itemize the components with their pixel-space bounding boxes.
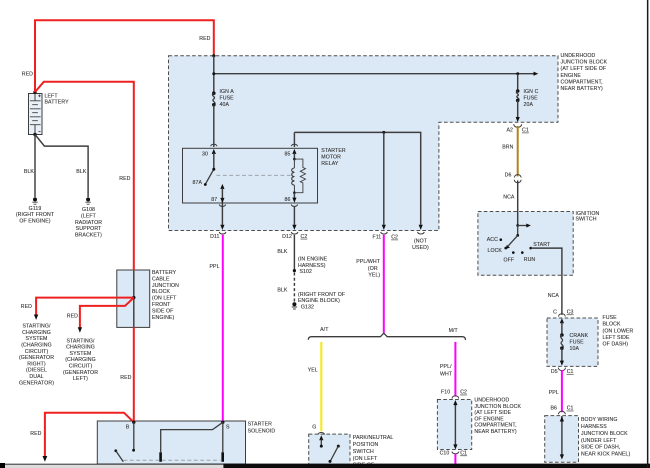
svg-text:SIDE OF DASH,: SIDE OF DASH,: [581, 445, 620, 451]
ignition switch box: [478, 212, 573, 276]
svg-text:LEFT: LEFT: [45, 93, 59, 99]
svg-text:FUSE: FUSE: [570, 340, 585, 346]
svg-text:IGN A: IGN A: [220, 89, 235, 95]
svg-text:(GENERATOR: (GENERATOR: [19, 355, 54, 361]
relay linkage dashed: [217, 174, 292, 176]
svg-text:S: S: [226, 424, 230, 430]
svg-text:RADIATOR: RADIATOR: [75, 220, 102, 226]
relay internal switch 30-87A: [204, 168, 215, 186]
starter solenoid terminals: [132, 421, 135, 424]
svg-text:F11: F11: [372, 235, 381, 241]
wire F11 drop: [381, 132, 388, 234]
svg-text:(ON LEFT: (ON LEFT: [152, 296, 177, 302]
svg-text:C1: C1: [522, 128, 529, 134]
svg-text:B: B: [126, 424, 130, 430]
solenoid S internal wire: [159, 422, 224, 462]
node battery negative: [33, 133, 36, 136]
svg-text:(CHARGING: (CHARGING: [21, 343, 52, 349]
label battery cable junction block: [152, 270, 179, 321]
node rail junction at IGN A: [212, 54, 215, 57]
svg-text:OF ENGINE): OF ENGINE): [19, 219, 50, 225]
svg-text:SIDE OF: SIDE OF: [152, 308, 173, 314]
wire BLK battery to G119: [34, 135, 36, 198]
wire PPL/WHT M/T branch to F10: [452, 342, 459, 399]
underhood junction block (dashed L-shaped box): [169, 56, 559, 231]
label underhood junction block 2: [474, 398, 521, 436]
svg-text:LOCK: LOCK: [487, 248, 502, 254]
svg-text:PPL/: PPL/: [440, 364, 452, 370]
label starter motor relay: [321, 148, 346, 167]
wire A/T M/T branch line: [308, 333, 465, 340]
label ignition switch: [576, 211, 600, 223]
wire YEL A/T branch to park/neutral switch: [318, 342, 325, 435]
svg-text:BLK: BLK: [76, 169, 87, 175]
svg-text:POSITION: POSITION: [353, 442, 379, 448]
svg-text:RED: RED: [21, 304, 32, 310]
wire IGN A fuse to relay 30: [211, 105, 217, 169]
wire RED junction block to starter solenoid B: [133, 327, 135, 422]
svg-text:40A: 40A: [220, 102, 230, 108]
svg-text:ACC: ACC: [487, 237, 498, 243]
svg-text:CHARGING: CHARGING: [22, 330, 51, 336]
svg-text:ENGINE: ENGINE: [561, 73, 582, 79]
solenoid linkage dashed: [124, 459, 221, 461]
svg-text:OF ENGINE: OF ENGINE: [474, 416, 504, 422]
svg-text:D6: D6: [505, 173, 512, 179]
svg-text:JUNCTION: JUNCTION: [152, 283, 179, 289]
wire IGN C drop: [517, 74, 519, 91]
node battery cable junction: [132, 296, 135, 299]
label underhood junction block: [561, 53, 608, 92]
svg-text:USED): USED): [412, 245, 429, 251]
ground G108: [85, 198, 90, 205]
svg-text:C2: C2: [301, 234, 308, 240]
label fuse block: [603, 315, 634, 347]
node battery positive: [33, 91, 36, 94]
svg-text:YEL): YEL): [368, 272, 380, 278]
svg-text:C10: C10: [440, 451, 450, 457]
starter solenoid box: [97, 421, 245, 464]
wire PPL D11 to starter solenoid S: [222, 235, 224, 422]
svg-text:FRONT: FRONT: [152, 302, 171, 308]
svg-text:87A: 87A: [192, 180, 202, 186]
svg-text:M/T: M/T: [449, 328, 459, 334]
svg-text:C: C: [553, 310, 557, 316]
svg-text:RED: RED: [120, 375, 131, 381]
svg-text:BATTERY: BATTERY: [152, 270, 177, 276]
solenoid B internal wire: [114, 422, 135, 462]
wire NCA start to crank fuse: [531, 248, 566, 335]
wire inside body harness junction block: [560, 416, 564, 460]
wire BLK D12 to S102 to G132: [293, 235, 295, 302]
svg-text:ENGINE): ENGINE): [152, 315, 174, 321]
park/neutral switch internals: [319, 435, 340, 463]
svg-text:10A: 10A: [570, 346, 580, 352]
svg-text:87: 87: [211, 197, 217, 203]
svg-text:BRACKET): BRACKET): [75, 232, 102, 238]
label park/neutral position switch: [353, 435, 394, 468]
wire BLK battery to G108: [35, 135, 88, 198]
svg-text:RELAY: RELAY: [321, 161, 339, 167]
label IGN C fuse: [524, 89, 539, 108]
svg-text:(RIGHT FRONT: (RIGHT FRONT: [16, 212, 55, 218]
svg-text:RED: RED: [67, 314, 78, 320]
label NOT USED: [412, 239, 429, 251]
svg-text:UNDERHOOD: UNDERHOOD: [561, 53, 596, 59]
wire NCA D6 to ignition switch: [517, 180, 519, 225]
svg-text:C3: C3: [567, 310, 574, 316]
svg-text:SYSTEM: SYSTEM: [26, 336, 48, 342]
svg-text:(IN ENGINE: (IN ENGINE: [298, 257, 328, 263]
svg-text:RED: RED: [22, 72, 33, 78]
svg-text:BLOCK: BLOCK: [603, 322, 622, 328]
svg-text:PPL: PPL: [549, 390, 559, 396]
svg-text:ENGINE BLOCK): ENGINE BLOCK): [298, 298, 340, 304]
svg-text:(AT LEFT SIDE OF: (AT LEFT SIDE OF: [561, 66, 607, 72]
label G132: [298, 292, 345, 311]
label ignition positions: [487, 237, 551, 264]
svg-text:CABLE: CABLE: [152, 276, 170, 282]
bottom black bar: [223, 464, 650, 468]
svg-text:JUNCTION BLOCK: JUNCTION BLOCK: [581, 431, 628, 437]
svg-text:C1: C1: [567, 406, 574, 412]
svg-text:FUSE: FUSE: [524, 96, 539, 102]
svg-text:DUAL: DUAL: [29, 374, 43, 380]
label starting/charging right: [19, 324, 54, 387]
relay 85 entry wire: [291, 132, 297, 159]
svg-text:SWITCH: SWITCH: [576, 217, 597, 223]
wire battery cable inside junction block: [133, 270, 135, 327]
svg-text:(CHARGING: (CHARGING: [65, 357, 96, 363]
svg-text:START: START: [533, 242, 551, 248]
svg-text:NEAR KICK PANEL): NEAR KICK PANEL): [581, 452, 631, 458]
svg-text:FUSE: FUSE: [603, 315, 618, 321]
svg-text:NEAR BATTERY): NEAR BATTERY): [474, 429, 516, 435]
fuse IGN C 20A: [516, 89, 520, 102]
connector D6: [514, 175, 521, 183]
underhood junction block 2 box: [437, 400, 471, 450]
svg-text:C2: C2: [460, 390, 467, 396]
svg-text:(RIGHT FRONT OF: (RIGHT FRONT OF: [298, 292, 345, 298]
svg-text:OF DASH): OF DASH): [603, 342, 629, 348]
ground G119: [32, 198, 37, 205]
svg-text:BODY WIRING: BODY WIRING: [581, 417, 617, 423]
svg-text:BLOCK: BLOCK: [152, 289, 171, 295]
fuse block box: [547, 318, 598, 366]
svg-text:NCA: NCA: [548, 293, 560, 299]
wire PPL D5 to B6: [559, 370, 566, 414]
wire RED battery to battery cable junction block: [35, 82, 134, 270]
svg-text:OFF: OFF: [503, 257, 514, 263]
svg-text:CRANK: CRANK: [570, 333, 589, 339]
svg-text:85: 85: [285, 152, 291, 158]
svg-text:STARTER: STARTER: [248, 422, 273, 428]
label G108: [75, 207, 102, 238]
label S102: [298, 257, 328, 275]
svg-text:B6: B6: [550, 406, 557, 412]
svg-text:BLK: BLK: [277, 287, 288, 293]
svg-text:C2: C2: [391, 235, 398, 241]
svg-text:F10: F10: [441, 390, 450, 396]
relay terminal 86 wire to D12: [291, 193, 298, 234]
svg-text:(LEFT: (LEFT: [81, 214, 97, 220]
svg-text:(UNDER LEFT: (UNDER LEFT: [581, 438, 617, 444]
svg-text:20A: 20A: [524, 102, 534, 108]
body wiring harness junction block box: [545, 416, 579, 463]
park/neutral position switch box: [309, 434, 350, 468]
svg-text:MOTOR: MOTOR: [321, 155, 341, 161]
wire top rail inside junction block: [214, 56, 539, 93]
bottom thin line left: [5, 464, 223, 465]
svg-text:RED: RED: [199, 36, 210, 42]
svg-text:D12: D12: [282, 234, 292, 240]
wire 85 branch to F11 and not-used: [294, 132, 424, 234]
svg-text:BATTERY: BATTERY: [45, 100, 70, 106]
svg-text:COMPARTMENT,: COMPARTMENT,: [561, 79, 603, 85]
svg-text:COMPARTMENT,: COMPARTMENT,: [474, 423, 516, 429]
svg-text:HARNESS: HARNESS: [581, 424, 607, 430]
label G119: [16, 206, 55, 225]
svg-text:30: 30: [202, 152, 208, 158]
label starter solenoid: [248, 422, 276, 435]
svg-text:G119: G119: [29, 206, 42, 212]
svg-text:WHT: WHT: [440, 371, 453, 377]
svg-text:A/T: A/T: [320, 327, 329, 333]
node rail junction IGN C: [516, 72, 519, 75]
svg-text:(NOT: (NOT: [414, 239, 428, 245]
svg-text:LEFT): LEFT): [73, 376, 88, 382]
svg-text:YEL: YEL: [308, 368, 318, 374]
svg-text:SUPPORT: SUPPORT: [76, 226, 102, 232]
svg-text:CIRCUIT): CIRCUIT): [25, 349, 49, 355]
svg-text:CHARGING: CHARGING: [66, 345, 95, 351]
label PPL/WHT OR YEL: [356, 259, 380, 278]
svg-text:(AT LEFT SIDE: (AT LEFT SIDE: [474, 410, 511, 416]
svg-text:JUNCTION BLOCK: JUNCTION BLOCK: [474, 404, 521, 410]
fuse IGN A 40A: [212, 91, 216, 106]
battery cable junction block box: [117, 270, 150, 327]
svg-text:(ON LOWER: (ON LOWER: [603, 328, 634, 334]
splice S102: [293, 269, 296, 272]
wire BRN A2 to D6: [517, 126, 519, 176]
label IGN A fuse: [220, 89, 235, 108]
label crank fuse: [570, 333, 589, 352]
wire IGN C fuse to A2: [514, 100, 522, 127]
starter motor relay box U1: [183, 148, 318, 203]
svg-text:LEFT SIDE: LEFT SIDE: [603, 335, 630, 341]
svg-text:(OR: (OR: [368, 266, 378, 272]
label starting/charging left: [63, 338, 98, 382]
label relay pins: [192, 152, 290, 204]
svg-text:STARTING/: STARTING/: [22, 324, 51, 330]
svg-text:(DIESEL: (DIESEL: [26, 368, 47, 374]
relay resistor parallel: [294, 159, 305, 193]
svg-text:RUN: RUN: [524, 257, 536, 263]
svg-text:PARK/NEUTRAL: PARK/NEUTRAL: [353, 435, 394, 441]
wire RED branch to bottom-left starter feed: [43, 413, 134, 462]
battery B1: [29, 94, 43, 135]
label PPL/WHT M/T: [440, 364, 453, 377]
node rail junction IGN A: [212, 72, 215, 75]
svg-text:BLK: BLK: [24, 169, 35, 175]
svg-text:D11: D11: [210, 234, 219, 240]
svg-text:86: 86: [285, 197, 291, 203]
wire PPL/WHT F11 to A/T M/T split: [383, 235, 385, 333]
svg-text:STARTER: STARTER: [321, 148, 346, 154]
wire RED battery to underhood junction block top rail: [35, 20, 214, 92]
svg-text:NCA: NCA: [503, 194, 515, 200]
svg-text:G: G: [312, 424, 316, 430]
node F11 branch: [382, 131, 385, 134]
svg-text:CIRCUIT): CIRCUIT): [69, 364, 93, 370]
svg-text:G132: G132: [301, 304, 314, 310]
svg-text:BLK: BLK: [277, 249, 288, 255]
label body wiring harness junction block: [581, 417, 631, 458]
svg-text:SYSTEM: SYSTEM: [70, 351, 92, 357]
svg-text:C1: C1: [567, 369, 574, 375]
svg-text:G108: G108: [82, 207, 95, 213]
svg-text:(ON LEFT: (ON LEFT: [353, 456, 378, 462]
wire RED branch to generator left: [78, 298, 134, 333]
svg-text:GENERATOR): GENERATOR): [19, 380, 54, 386]
right border: [647, 0, 649, 468]
bottom-left black square: [0, 463, 5, 468]
wire PPL/WHT below C10: [454, 454, 456, 464]
svg-text:D5: D5: [551, 369, 558, 375]
relay coil 85-86: [292, 158, 296, 194]
fuse CRANK 10A: [560, 333, 564, 350]
svg-text:RED: RED: [30, 431, 41, 437]
svg-text:IGN C: IGN C: [524, 89, 539, 95]
svg-text:SWITCH: SWITCH: [353, 449, 374, 455]
svg-text:STARTING/: STARTING/: [66, 338, 95, 344]
svg-text:PPL: PPL: [209, 264, 219, 270]
svg-text:(GENERATOR: (GENERATOR: [63, 370, 98, 376]
svg-text:A2: A2: [506, 128, 513, 134]
svg-text:NEAR BATTERY): NEAR BATTERY): [561, 86, 603, 92]
relay terminal 87 wire to D11: [219, 184, 226, 234]
svg-text:JUNCTION BLOCK: JUNCTION BLOCK: [561, 60, 608, 66]
bottom gray strip left: [5, 465, 223, 468]
ground G132: [292, 302, 297, 309]
wire crank fuse to D5: [558, 348, 565, 370]
wire RED branch to generator right: [34, 298, 134, 320]
svg-text:SOLENOID: SOLENOID: [248, 429, 276, 435]
wire through underhood junction block 2: [452, 400, 459, 454]
svg-text:PPL/WHT: PPL/WHT: [356, 259, 380, 265]
svg-text:RED: RED: [119, 176, 130, 182]
svg-text:S102: S102: [300, 269, 313, 275]
svg-text:RIGHT): RIGHT): [27, 361, 46, 367]
svg-text:FUSE: FUSE: [220, 96, 235, 102]
svg-text:BRN: BRN: [502, 145, 513, 151]
ignition switch internals: [500, 224, 533, 254]
svg-text:UNDERHOOD: UNDERHOOD: [474, 398, 509, 404]
svg-text:C1: C1: [460, 451, 467, 457]
